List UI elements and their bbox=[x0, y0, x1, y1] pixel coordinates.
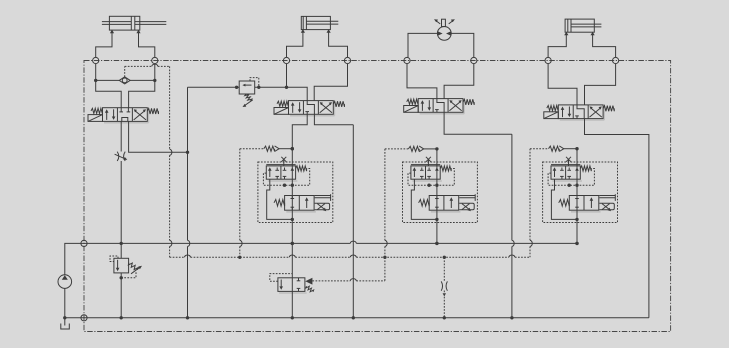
compensator block enclosure bbox=[258, 162, 333, 223]
wire spool pilot line bbox=[599, 195, 615, 197]
compensator spring bbox=[580, 166, 591, 171]
pilot line of check valve bbox=[124, 66, 126, 77]
spool pilot box bbox=[599, 203, 614, 210]
LS link section 2 bbox=[240, 148, 264, 150]
wire pump suction bbox=[64, 288, 66, 317]
manifold port connections (top) bbox=[93, 57, 99, 63]
compensator block enclosure bbox=[403, 162, 478, 223]
hydraulic motor (bidirectional) bbox=[437, 27, 451, 41]
wire block2 to unloading valve bbox=[291, 243, 293, 277]
compensator pilot lines bbox=[548, 169, 594, 186]
wire section4 B-line bbox=[585, 64, 616, 105]
wire drain line x=187.5 bbox=[187, 87, 189, 152]
pressure compensator valve bbox=[553, 180, 583, 182]
pressure compensator valve bbox=[268, 180, 298, 182]
manifold enclosure (dash-dot boundary) bbox=[84, 61, 671, 332]
wire motor ports bbox=[408, 33, 437, 57]
LS bus line (dashed) bbox=[170, 256, 185, 258]
wire cyl4 ports bbox=[548, 34, 566, 58]
compensator pilot lines bbox=[263, 169, 309, 186]
cylinder 4 (single-rod) bbox=[565, 19, 594, 32]
wire unloading valve outlet bbox=[291, 291, 293, 317]
unloading valve pilot (right) and spring bbox=[305, 278, 312, 285]
compensator spring bbox=[440, 166, 451, 171]
pilot-operated check valve bbox=[96, 79, 120, 81]
wire bypass loop bbox=[267, 179, 293, 219]
wire port-relief line bbox=[188, 86, 240, 88]
wire block main line bbox=[576, 149, 578, 185]
wire block main line bbox=[291, 149, 293, 185]
unloading valve pilot lines bbox=[270, 274, 293, 282]
wire section2 A-line bbox=[286, 64, 288, 88]
wire section2 B-line bbox=[314, 64, 347, 101]
metering spool valve bbox=[571, 211, 601, 213]
metering spool valve bbox=[286, 211, 316, 213]
adjustable throttle bbox=[117, 152, 119, 161]
wire V2 T-line bbox=[314, 114, 353, 125]
manifold port connections (left) bbox=[81, 240, 87, 246]
main relief valve bbox=[120, 243, 122, 258]
wire bypass loop bbox=[411, 179, 437, 219]
plugged port X bbox=[281, 157, 286, 162]
cylinder 1 (double-rod) bbox=[109, 16, 139, 30]
tank bus line bbox=[65, 317, 649, 319]
unloading valve bbox=[279, 292, 307, 294]
shadow bbox=[420, 113, 465, 115]
plugged port X bbox=[566, 157, 571, 162]
hydraulic pump bbox=[58, 275, 72, 289]
spool pilot box bbox=[459, 203, 474, 210]
wire V4 T-line bbox=[585, 119, 649, 318]
wire V2 P to block bbox=[292, 114, 307, 149]
wire V1 T-line bbox=[129, 121, 188, 152]
compensator block enclosure bbox=[543, 162, 618, 223]
tank symbol bbox=[64, 318, 66, 326]
spool pilot box bbox=[315, 203, 330, 210]
LS link section 4 bbox=[530, 148, 549, 150]
wire section1 A-line bbox=[95, 64, 97, 81]
wire section3 B-line bbox=[444, 64, 474, 99]
wire pump pressure line bbox=[65, 243, 84, 275]
plugged port X bbox=[426, 157, 431, 162]
wire section1 B-line bbox=[154, 64, 156, 81]
wire section4 A-line bbox=[548, 64, 577, 105]
shadow bbox=[560, 119, 605, 121]
wire block main line bbox=[436, 149, 438, 185]
wire V3 T-line bbox=[444, 112, 512, 134]
wire section3 A-line bbox=[407, 64, 437, 99]
wire spool pilot line bbox=[459, 195, 475, 197]
wire spool pilot line bbox=[315, 195, 331, 197]
port relief valve (section 2 A-line) bbox=[239, 81, 255, 94]
pressure compensator valve bbox=[412, 180, 442, 182]
compensator spring bbox=[296, 166, 307, 171]
pressure bus line bbox=[84, 242, 350, 244]
compensator pilot lines bbox=[408, 169, 454, 186]
shadow bbox=[104, 122, 149, 124]
LS bleed orifice line bbox=[443, 256, 446, 259]
shadow bbox=[290, 115, 335, 117]
LS link section 3 bbox=[385, 148, 409, 150]
wire cyl1 ports bbox=[96, 32, 112, 58]
wire cyl2 ports bbox=[287, 31, 303, 57]
metering spool valve bbox=[431, 211, 461, 213]
wire bypass loop bbox=[551, 179, 577, 219]
cylinder 2 (single-rod) bbox=[301, 16, 330, 29]
wire V1 P-line with throttle bbox=[120, 121, 122, 151]
pilot line to LS bus (from check valve) bbox=[169, 66, 171, 149]
